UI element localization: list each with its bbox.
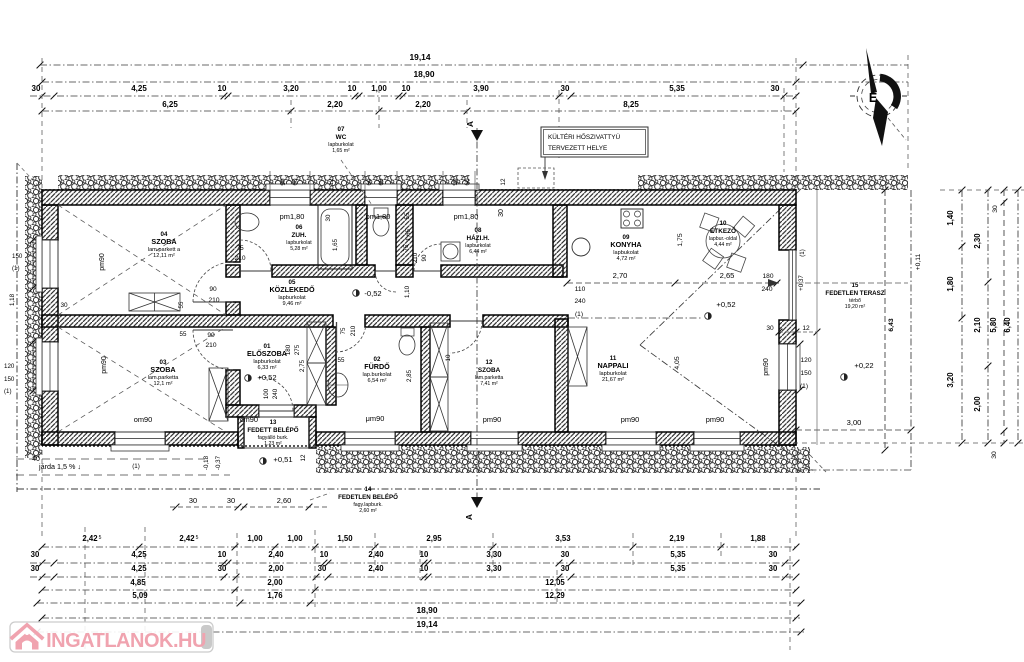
terrace width dim 6,43 (884, 190, 886, 450)
svg-text:om90: om90 (134, 415, 153, 424)
svg-text:3,90: 3,90 (473, 84, 489, 93)
svg-text:5,35: 5,35 (670, 564, 686, 573)
svg-text:(1): (1) (799, 249, 806, 257)
top wall segments (42, 190, 270, 205)
svg-text:4,25: 4,25 (131, 84, 147, 93)
svg-text:2,00: 2,00 (267, 578, 283, 587)
svg-text:FÜRDŐ: FÜRDŐ (364, 362, 390, 371)
terrace dim 3,00 (796, 429, 911, 431)
bottom wall window nappali 2 (694, 432, 740, 445)
svg-text:1,65 m²: 1,65 m² (332, 148, 350, 154)
svg-text:30: 30 (992, 205, 999, 213)
svg-text:60: 60 (366, 178, 373, 186)
bottom chain row4 (42, 589, 796, 591)
svg-text:120: 120 (4, 363, 15, 370)
svg-text:60: 60 (292, 178, 299, 186)
svg-text:12,1 m²: 12,1 m² (154, 381, 173, 387)
svg-text:3,20: 3,20 (946, 372, 955, 388)
svg-text:4,05: 4,05 (674, 356, 681, 369)
svg-text:É: É (869, 90, 877, 105)
svg-text:TERVEZETT HELYE: TERVEZETT HELYE (548, 145, 607, 152)
bottom wall window furdo (345, 432, 395, 445)
entry door window (259, 405, 294, 417)
bottom wall window 03 szoba (115, 432, 165, 445)
svg-text:KÖZLEKEDŐ: KÖZLEKEDŐ (269, 285, 315, 294)
svg-text:210: 210 (350, 325, 357, 336)
svg-text:13: 13 (270, 420, 277, 426)
right chains ties (940, 189, 1024, 191)
svg-text:1,00: 1,00 (247, 534, 263, 543)
svg-text:55: 55 (180, 331, 187, 338)
left window dim lines (32, 240, 34, 288)
svg-text:30: 30 (32, 84, 41, 93)
sink zuh (235, 213, 259, 231)
svg-text:FEDETT BELÉPŐ: FEDETT BELÉPŐ (247, 426, 298, 434)
right wall corner dim 30-12 (779, 331, 817, 333)
svg-text:30: 30 (561, 564, 570, 573)
svg-text:ELŐSZOBA: ELŐSZOBA (247, 349, 287, 358)
svg-text:12,05: 12,05 (545, 578, 565, 587)
door szoba04 (193, 262, 233, 302)
svg-text:6,25: 6,25 (162, 100, 178, 109)
right wall window (779, 344, 796, 390)
svg-text:6,33 m²: 6,33 m² (258, 365, 277, 371)
dining table etkezo (700, 213, 755, 272)
svg-text:FEDETLEN BELÉPŐ: FEDETLEN BELÉPŐ (338, 493, 398, 501)
svg-text:180: 180 (285, 344, 292, 355)
svg-text:2,42: 2,42 (179, 534, 195, 543)
svg-text:2,19: 2,19 (669, 534, 685, 543)
svg-text:2,10: 2,10 (973, 317, 982, 333)
svg-text:cm90: cm90 (240, 415, 258, 424)
svg-text:2,20: 2,20 (415, 100, 431, 109)
svg-text:12: 12 (500, 178, 507, 186)
bottom wall window nappali 1 (606, 432, 656, 445)
section line A-A (476, 128, 478, 505)
door entry porch (259, 377, 293, 411)
svg-text:30: 30 (60, 302, 68, 309)
svg-text:240: 240 (574, 298, 585, 305)
bottom chain row7 (37, 631, 806, 633)
svg-text:12: 12 (300, 454, 307, 461)
eloszoba south wall with entry door (226, 405, 259, 417)
svg-text:NAPPALI: NAPPALI (597, 361, 628, 370)
svg-text:+0,51: +0,51 (273, 455, 292, 464)
door szoba03 (193, 330, 233, 370)
porch outline (244, 417, 309, 448)
svg-text:SZOBA: SZOBA (151, 237, 176, 246)
svg-text:2,60 m²: 2,60 m² (359, 508, 377, 514)
right dim chain 2 (987, 190, 989, 443)
svg-text:FEDETLEN TERASZ: FEDETLEN TERASZ (825, 290, 884, 297)
porch dim row (170, 506, 330, 508)
svg-text:1,65: 1,65 (332, 238, 339, 251)
svg-text:1,00: 1,00 (287, 534, 303, 543)
wardrobe eloszoba (307, 322, 326, 363)
svg-text:30: 30 (227, 496, 235, 505)
wardrobe szoba12 (430, 323, 448, 377)
svg-text:30: 30 (561, 550, 570, 559)
plaster dots top wall (42, 188, 796, 191)
svg-text:pm90: pm90 (99, 253, 106, 271)
svg-text:1,40: 1,40 (946, 210, 955, 226)
top wall window tick lines (269, 171, 271, 190)
svg-text:30: 30 (561, 84, 570, 93)
bottom wall window 12 szoba (471, 432, 518, 445)
kitchen sink (572, 238, 590, 256)
svg-text:5,28 m²: 5,28 m² (290, 246, 308, 252)
svg-text:240: 240 (272, 388, 279, 399)
right wall segments (779, 205, 796, 250)
top wall window 04 szoba side (270, 190, 310, 205)
svg-text:6,54 m²: 6,54 m² (368, 378, 387, 384)
svg-text:μm90: μm90 (366, 414, 385, 423)
svg-text:+0,52: +0,52 (716, 300, 735, 309)
svg-text:18,90: 18,90 (417, 605, 438, 615)
svg-text:19,20 m²: 19,20 m² (845, 304, 866, 310)
porch left wall (238, 417, 244, 448)
site boundary left (16, 163, 18, 492)
svg-text:30: 30 (498, 209, 505, 217)
north arrow (850, 48, 907, 146)
wc leader line (341, 160, 372, 205)
door leaf furdo (336, 322, 338, 352)
svg-text:1,88: 1,88 (750, 534, 766, 543)
svg-text:SZOBA: SZOBA (150, 365, 175, 374)
window sills top (266, 184, 314, 190)
svg-text:10: 10 (420, 564, 429, 573)
svg-text:150: 150 (12, 253, 23, 260)
svg-text:+0,22: +0,22 (854, 361, 873, 370)
svg-text:SZOBA: SZOBA (478, 367, 501, 374)
svg-text:pm90: pm90 (763, 358, 770, 376)
svg-text:110: 110 (575, 286, 586, 293)
svg-text:pm90: pm90 (483, 415, 502, 424)
svg-text:30: 30 (189, 496, 197, 505)
svg-text:1,10: 1,10 (404, 285, 411, 298)
terrace right boundary (910, 190, 912, 470)
svg-text:06: 06 (296, 224, 303, 231)
top extension lines (41, 58, 43, 188)
svg-text:2,40: 2,40 (368, 550, 384, 559)
svg-text:4,72 m²: 4,72 m² (617, 256, 636, 262)
svg-text:4,85: 4,85 (130, 578, 146, 587)
bathtub zuh (318, 205, 352, 269)
svg-text:30: 30 (771, 84, 780, 93)
svg-text:(1): (1) (12, 265, 20, 272)
svg-text:1,80: 1,80 (946, 276, 955, 292)
svg-text:4,44 m²: 4,44 m² (714, 242, 732, 248)
svg-text:KÜLTÉRI HŐSZIVATTYÚ: KÜLTÉRI HŐSZIVATTYÚ (548, 132, 620, 141)
svg-text:HÁZI.H.: HÁZI.H. (466, 233, 489, 242)
svg-text:180: 180 (762, 273, 773, 280)
svg-text:240: 240 (761, 286, 772, 293)
svg-text:2,60: 2,60 (277, 496, 291, 505)
svg-text:KONYHA: KONYHA (610, 240, 641, 249)
svg-text:1,50: 1,50 (337, 534, 353, 543)
bottom chain row5 (37, 602, 801, 604)
roof hip right upper (640, 190, 800, 345)
svg-text:-0,37: -0,37 (215, 455, 222, 470)
svg-text:2,00: 2,00 (973, 396, 982, 412)
svg-text:10: 10 (320, 550, 329, 559)
room diagonals szoba04 (58, 205, 226, 315)
svg-text:12,11 m²: 12,11 m² (153, 253, 175, 259)
svg-text:12,29: 12,29 (545, 591, 565, 600)
toilet furdo (401, 328, 414, 336)
svg-text:6,40: 6,40 (1003, 317, 1012, 333)
svg-text:WC: WC (336, 134, 347, 141)
washing machine hazih (441, 242, 460, 261)
svg-text:10: 10 (348, 84, 357, 93)
left wall window 03 szoba (42, 342, 58, 391)
svg-text:210: 210 (208, 297, 219, 304)
svg-text:+0,37: +0,37 (798, 275, 805, 291)
svg-text:90: 90 (452, 178, 459, 186)
svg-text:5,35: 5,35 (670, 550, 686, 559)
svg-text:210: 210 (205, 342, 216, 349)
svg-text:90: 90 (421, 254, 428, 261)
watermark ingatlanok.hu (10, 622, 214, 652)
svg-text:2,65: 2,65 (720, 271, 735, 280)
svg-text:2,30: 2,30 (973, 233, 982, 249)
svg-text:75: 75 (403, 244, 410, 251)
bottom extension lines (84, 527, 86, 652)
svg-text:3,30: 3,30 (486, 564, 502, 573)
svg-text:10: 10 (218, 550, 227, 559)
svg-text:55: 55 (338, 357, 345, 364)
svg-text:6,43: 6,43 (888, 318, 895, 331)
dim row 18,90 (42, 81, 908, 83)
roof hip right lower (640, 345, 815, 472)
svg-text:2,40: 2,40 (368, 564, 384, 573)
svg-text:210: 210 (234, 255, 245, 262)
toilet wc (374, 208, 388, 217)
svg-text:3,00: 3,00 (847, 418, 862, 427)
svg-text:30: 30 (31, 550, 40, 559)
svg-text:3,30: 3,30 (486, 550, 502, 559)
dim row top quads (42, 110, 796, 112)
wall hazih-konyha (553, 205, 567, 277)
svg-text:pm1,80: pm1,80 (454, 212, 479, 221)
svg-text:pm90: pm90 (101, 356, 108, 374)
door zuh (240, 240, 271, 271)
svg-text:járda 1,5 % ↓: járda 1,5 % ↓ (38, 462, 81, 471)
svg-text:6,44 m²: 6,44 m² (469, 249, 487, 255)
door niche hazih (414, 244, 441, 271)
svg-text:60: 60 (464, 178, 471, 186)
right dim chain 4 (1017, 190, 1019, 443)
wardrobe nappali (568, 327, 587, 386)
wall szoba12-nappali (555, 319, 568, 432)
top wall window wc (365, 190, 397, 205)
terrace corner diagonal (810, 455, 826, 472)
svg-text:12: 12 (328, 178, 335, 186)
svg-text:1,76: 1,76 (267, 591, 283, 600)
sink furdo (328, 373, 348, 397)
door szoba12 (450, 321, 482, 353)
svg-text:15: 15 (852, 283, 859, 289)
middle wall under zuh/wc/hazih (226, 265, 240, 277)
gravel strip bottom (316, 447, 810, 473)
svg-text:pm90: pm90 (621, 415, 640, 424)
wall eloszoba-furdo (326, 327, 336, 405)
svg-text:1,65: 1,65 (405, 228, 412, 241)
svg-text:5: 5 (196, 535, 199, 541)
door wc (375, 271, 396, 292)
konyha dim line (567, 282, 779, 284)
svg-text:(1): (1) (132, 463, 140, 470)
bottom chain row6 (42, 617, 800, 619)
wall wc-niche (396, 205, 413, 265)
svg-text:30: 30 (769, 564, 778, 573)
svg-text:5,09: 5,09 (132, 591, 148, 600)
svg-text:2,75: 2,75 (299, 359, 306, 372)
bottom chain row3 (30, 576, 796, 578)
svg-text:30: 30 (325, 214, 332, 221)
bottom wall segments (42, 432, 115, 445)
right dim chain 3 (1003, 190, 1005, 443)
site boundary bottom (17, 488, 820, 490)
svg-text:(1): (1) (800, 383, 808, 390)
right wall terrace door (789, 250, 796, 320)
svg-text:21,67 m²: 21,67 m² (602, 377, 624, 383)
svg-text:1,18: 1,18 (9, 293, 16, 306)
corridor south wall H2 (42, 315, 333, 327)
plaster dots bottom wall (42, 445, 796, 448)
svg-text:150: 150 (800, 370, 811, 377)
svg-text:100: 100 (263, 388, 270, 399)
heat pump pad dashed (518, 168, 554, 188)
svg-text:1,23 m²: 1,23 m² (264, 441, 282, 447)
svg-text:(1): (1) (575, 311, 583, 318)
svg-text:30: 30 (218, 564, 227, 573)
heat pump label box (541, 127, 648, 157)
svg-text:pm1,80: pm1,80 (280, 212, 305, 221)
svg-text:210: 210 (412, 252, 419, 263)
svg-text:7,41 m²: 7,41 m² (480, 381, 498, 387)
svg-text:07: 07 (338, 126, 345, 133)
svg-text:12: 12 (486, 359, 493, 366)
svg-text:120: 120 (800, 357, 811, 364)
svg-text:A: A (464, 514, 474, 520)
svg-text:1,75: 1,75 (677, 233, 684, 246)
svg-text:ZUH.: ZUH. (292, 232, 307, 239)
left wall segments (42, 205, 58, 240)
svg-text:08: 08 (475, 227, 482, 234)
svg-text:90: 90 (209, 286, 217, 293)
wardrobe szoba03 (209, 368, 228, 421)
svg-text:30: 30 (991, 451, 998, 459)
svg-text:(1): (1) (4, 388, 12, 395)
svg-text:A: A (465, 121, 475, 127)
svg-text:5,80: 5,80 (989, 317, 998, 333)
svg-text:2,85: 2,85 (406, 369, 413, 382)
svg-text:2,20: 2,20 (327, 100, 343, 109)
kitchen stove (621, 209, 643, 228)
svg-text:INGATLANOK.HU: INGATLANOK.HU (46, 630, 206, 652)
right dim chain 1 (961, 190, 963, 443)
wall zuh-wc (356, 205, 367, 265)
dim row top thirds (30, 95, 796, 97)
svg-text:90: 90 (280, 178, 287, 186)
svg-text:2,40: 2,40 (268, 550, 284, 559)
svg-text:ÉTKEZŐ: ÉTKEZŐ (710, 226, 736, 235)
svg-text:10: 10 (420, 550, 429, 559)
heat pump leader arrow (544, 157, 546, 176)
top wall window hazi h (443, 190, 475, 205)
svg-text:pm90: pm90 (706, 415, 725, 424)
corner diagonal top-left (17, 163, 42, 190)
svg-text:30: 30 (318, 564, 327, 573)
svg-text:10: 10 (445, 354, 452, 361)
svg-text:3,20: 3,20 (283, 84, 299, 93)
bottom chain row1 (42, 546, 796, 548)
svg-text:18,90: 18,90 (414, 69, 435, 79)
wall W1 upper between szoba04 and zuh/corridor (226, 205, 240, 262)
bottom chain row2 (30, 562, 796, 564)
terrace bottom boundary (796, 469, 911, 471)
svg-text:90: 90 (207, 332, 215, 339)
svg-text:14: 14 (365, 487, 372, 493)
roof ridge line (568, 317, 703, 319)
porch leader (310, 493, 330, 500)
svg-text:-0,18: -0,18 (203, 455, 210, 470)
svg-text:+0,11: +0,11 (915, 253, 922, 270)
svg-text:5,35: 5,35 (669, 84, 685, 93)
svg-text:5: 5 (99, 535, 102, 541)
wall furdo-szoba12 (421, 327, 430, 432)
gravel strip left (25, 176, 42, 458)
svg-text:19,14: 19,14 (417, 619, 438, 629)
svg-text:30: 30 (766, 325, 774, 332)
svg-text:275: 275 (294, 344, 301, 355)
svg-text:60: 60 (378, 178, 385, 186)
right window dim line (799, 344, 801, 390)
svg-text:10: 10 (402, 84, 411, 93)
door furdo (336, 322, 366, 352)
terrace eaves line (816, 190, 818, 445)
svg-text:3,53: 3,53 (555, 534, 571, 543)
window sills bottom (111, 445, 169, 451)
svg-text:-0,52: -0,52 (364, 289, 381, 298)
svg-text:75: 75 (236, 245, 244, 252)
gravel strip top-left (58, 175, 470, 190)
window sills left (36, 236, 42, 292)
porch right wall (309, 417, 316, 448)
svg-text:+0,52: +0,52 (257, 373, 276, 382)
svg-text:75: 75 (340, 327, 347, 334)
svg-text:2,95: 2,95 (426, 534, 442, 543)
svg-text:10: 10 (218, 84, 227, 93)
svg-text:pm1,80: pm1,80 (366, 212, 391, 221)
svg-text:55: 55 (178, 301, 185, 308)
wall W1 lower between szoba03 and eloszoba (226, 370, 240, 405)
dim row 19,14 (40, 64, 908, 66)
svg-text:12: 12 (802, 325, 810, 332)
svg-text:55: 55 (404, 212, 411, 219)
svg-text:9,46 m²: 9,46 m² (283, 301, 302, 307)
svg-text:2,00: 2,00 (268, 564, 284, 573)
svg-text:10: 10 (720, 220, 727, 227)
svg-text:19,14: 19,14 (410, 52, 431, 62)
svg-text:30: 30 (31, 564, 40, 573)
gravel strip top-right (638, 175, 908, 190)
left wall window 04 szoba (42, 240, 58, 288)
svg-text:150: 150 (4, 376, 15, 383)
svg-text:2,70: 2,70 (613, 271, 628, 280)
wardrobe szoba04 (129, 293, 180, 311)
